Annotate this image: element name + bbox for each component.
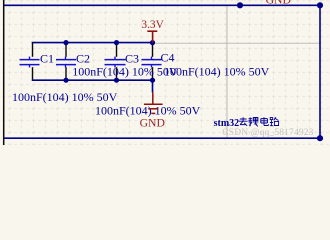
ground bar 3 <box>151 112 155 114</box>
svg-text:CSDN @qq_58174923: CSDN @qq_58174923 <box>222 128 313 138</box>
ground symbol stem <box>152 92 154 104</box>
svg-text:C3: C3 <box>125 52 139 66</box>
capacitor C2 <box>56 43 76 80</box>
svg-text:100nF(104) 10% 50V: 100nF(104) 10% 50V <box>95 103 201 117</box>
ground bar 1 <box>144 103 163 105</box>
wire right border <box>319 5 321 138</box>
power port 3.3V bar <box>147 30 157 32</box>
svg-text:C1: C1 <box>40 52 54 66</box>
svg-text:GND: GND <box>140 117 165 130</box>
svg-text:C2: C2 <box>76 52 90 66</box>
junction top border <box>237 2 243 8</box>
sheet background <box>0 0 330 145</box>
junction top C4/3.3V <box>150 40 155 45</box>
power port 3.3V stem <box>152 31 154 42</box>
capacitor C4 <box>142 45 162 79</box>
capacitor C3 <box>105 43 126 80</box>
junction bottom GND corner <box>150 78 155 83</box>
wire bottom bus <box>32 79 153 81</box>
junction bottom-right corner <box>317 135 323 141</box>
junction bottom C2 <box>63 78 68 83</box>
wire top bus <box>32 42 153 44</box>
svg-text:100nF(104) 10% 50V: 100nF(104) 10% 50V <box>72 65 178 79</box>
svg-text:100nF(104) 10% 50V: 100nF(104) 10% 50V <box>164 65 270 79</box>
title hanzi OU <box>248 117 258 126</box>
ground bar 2 <box>148 108 158 110</box>
wire GND net top border <box>4 4 320 6</box>
junction bottom C3 <box>114 78 119 83</box>
sheet edge black line <box>3 0 5 145</box>
wire bottom border <box>4 137 320 139</box>
capacitor C1 <box>20 43 40 80</box>
wire GND drop blue <box>152 80 154 92</box>
title hanzi QU <box>239 117 248 126</box>
ghost line vertical <box>226 6 228 138</box>
svg-text:3.3V: 3.3V <box>141 19 164 31</box>
title hanzi DIAN <box>261 117 269 125</box>
svg-text:GND: GND <box>266 0 291 7</box>
title hanzi LU <box>270 117 279 126</box>
junction top C2 <box>63 40 68 45</box>
ghost line horizontal <box>155 42 320 44</box>
svg-text:C4: C4 <box>161 51 175 65</box>
junction top C3 <box>114 40 119 45</box>
junction top-right corner <box>317 2 323 8</box>
svg-text:100nF(104) 10% 50V: 100nF(104) 10% 50V <box>12 90 118 104</box>
